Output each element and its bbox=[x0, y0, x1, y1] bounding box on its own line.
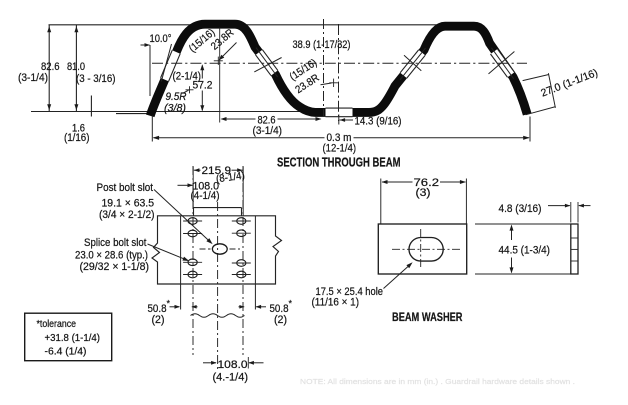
beam break gap 2 first crest right bbox=[256, 50, 278, 76]
washer front view outline bbox=[378, 224, 466, 274]
post edge line right bbox=[254, 216, 256, 310]
leader 9.5R with center mark bbox=[183, 90, 189, 93]
beam break gap 3 valley flat bbox=[326, 108, 353, 117]
10 degree reference vertical bbox=[149, 45, 151, 96]
svg-text:(2): (2) bbox=[274, 314, 287, 326]
svg-text:38.9 (1-17/32): 38.9 (1-17/32) bbox=[293, 39, 351, 51]
svg-text:+31.8 (1-1/4): +31.8 (1-1/4) bbox=[45, 333, 101, 344]
svg-text:27.0 (1-1/16): 27.0 (1-1/16) bbox=[539, 67, 599, 100]
svg-text:44.5 (1-3/4): 44.5 (1-3/4) bbox=[499, 245, 551, 257]
dimension 50.8 left bbox=[170, 306, 180, 308]
dimension 215.9 extension lines bbox=[192, 167, 194, 208]
splice bolt slot r1 right bbox=[237, 218, 246, 225]
svg-text:(1/16): (1/16) bbox=[64, 132, 90, 144]
svg-text:(2): (2) bbox=[152, 314, 165, 326]
svg-text:4.8 (3/16): 4.8 (3/16) bbox=[499, 203, 542, 215]
break cross marks gap 4 bbox=[400, 48, 426, 80]
dimension 14.3 leader bbox=[338, 115, 340, 125]
post bolt slot center oval bbox=[212, 244, 227, 254]
washer projection lines bbox=[475, 223, 571, 225]
leader 17.5 x 25.4 hole bbox=[384, 264, 412, 289]
washer side view bbox=[571, 224, 578, 274]
leader 23.8R valley with center mark bbox=[321, 83, 332, 85]
leader post bolt slot bbox=[154, 190, 211, 243]
dimension 215.9 line bbox=[194, 169, 201, 171]
svg-text:(3/8): (3/8) bbox=[164, 103, 186, 115]
svg-text:(29/32 × 1-1/8): (29/32 × 1-1/8) bbox=[80, 261, 150, 273]
svg-text:(3 - 3/16): (3 - 3/16) bbox=[76, 73, 116, 85]
washer dimension 76.2 bbox=[380, 179, 382, 225]
svg-text:14.3 (9/16): 14.3 (9/16) bbox=[355, 116, 402, 128]
svg-text:81.0: 81.0 bbox=[67, 61, 85, 73]
svg-text:*: * bbox=[289, 299, 293, 309]
splice bolt slot r4 right bbox=[237, 271, 246, 278]
plate vertical centerline dash-dot bbox=[217, 202, 219, 370]
dimension line 81.0 height bbox=[75, 25, 77, 112]
dimension 50.8 right bbox=[256, 306, 266, 308]
wire: 1.6 offset line bbox=[116, 113, 147, 115]
svg-text:*tolerance: *tolerance bbox=[37, 319, 77, 330]
svg-text:(3-1/4): (3-1/4) bbox=[18, 72, 48, 84]
10 degree slanted leg bbox=[161, 44, 171, 82]
break cross marks gap 5 bbox=[491, 48, 513, 79]
dimension 57.2 vertical bbox=[201, 66, 203, 79]
leader splice bolt slot bbox=[148, 244, 188, 260]
svg-text:-6.4 (1/4): -6.4 (1/4) bbox=[45, 347, 87, 358]
bolt column centerline left dash-dot bbox=[192, 166, 194, 355]
10 degree arrow bbox=[141, 44, 150, 46]
wire: top dimension line bbox=[49, 24, 442, 26]
svg-text:(11/16 × 1): (11/16 × 1) bbox=[312, 297, 360, 309]
W-beam rail profile (thick section) bbox=[150, 24, 527, 116]
svg-text:SECTION THROUGH BEAM: SECTION THROUGH BEAM bbox=[277, 156, 401, 170]
wire: baseline under beam bbox=[31, 111, 326, 113]
dimension 108.0 bottom bbox=[203, 362, 216, 364]
washer slotted hole bbox=[409, 238, 443, 262]
splice bolt slot r3 left bbox=[188, 259, 197, 266]
valley vertical centerline dash-dot bbox=[338, 24, 340, 121]
svg-text:Splice bolt slot: Splice bolt slot bbox=[84, 237, 147, 249]
38.9 dimension vertical line bbox=[323, 19, 325, 116]
splice bolt slot r3 right bbox=[237, 260, 246, 267]
beam break gap 1 left slope bbox=[161, 50, 181, 81]
svg-text:(3/4 × 2-1/2): (3/4 × 2-1/2) bbox=[99, 209, 155, 221]
splice bolt slot r2 left bbox=[188, 230, 197, 237]
bolt column centerline right dash-dot bbox=[242, 166, 244, 355]
svg-text:10.0°: 10.0° bbox=[150, 33, 172, 45]
svg-text:BEAM WASHER: BEAM WASHER bbox=[392, 310, 463, 324]
svg-text:19.1 × 63.5: 19.1 × 63.5 bbox=[102, 198, 155, 210]
dimension line 82.6 height bbox=[48, 25, 50, 112]
post break wavy line bbox=[191, 314, 245, 318]
horizontal centerline dash-dot bbox=[152, 62, 527, 64]
svg-text:(4-1/4): (4-1/4) bbox=[191, 190, 220, 202]
dimension 27.0 beam end bbox=[523, 75, 549, 81]
tolerance note box bbox=[25, 313, 112, 361]
dimension 82.6 crest-to-valley bbox=[219, 28, 221, 123]
dimension 44.5 vertical bbox=[511, 226, 513, 241]
svg-text:23.0 × 28.6 (typ.): 23.0 × 28.6 (typ.) bbox=[75, 250, 148, 262]
splice bolt slot r2 right bbox=[237, 230, 246, 237]
splice bolt slot r1 left bbox=[188, 218, 197, 225]
post edge line left bbox=[180, 216, 182, 310]
washer hole centerlines dash-dot bbox=[392, 248, 461, 250]
svg-text:(3): (3) bbox=[416, 187, 431, 199]
svg-text:NOTE: All dimensions are in mm: NOTE: All dimensions are in mm (in.) . G… bbox=[300, 377, 575, 386]
beam break gap 4 second crest left bbox=[400, 50, 425, 78]
svg-text:9.5R: 9.5R bbox=[166, 91, 187, 103]
splice plate overlap tab bbox=[194, 207, 242, 209]
leader for 1.6 dimension bbox=[90, 96, 92, 117]
splice bolt slot r4 left bbox=[188, 271, 197, 278]
beam break gap 5 second crest right bbox=[491, 49, 515, 77]
dimension 108.0 top line bbox=[178, 184, 193, 186]
dimension 4.8 thickness bbox=[570, 202, 572, 223]
svg-text:108.0: 108.0 bbox=[218, 359, 248, 371]
svg-text:*: * bbox=[167, 299, 171, 309]
svg-text:57.2: 57.2 bbox=[193, 80, 213, 92]
dimension 0.3 m overall bbox=[151, 116, 153, 142]
break cross marks gap 2 bbox=[256, 48, 278, 77]
svg-text:(12-1/4): (12-1/4) bbox=[323, 143, 357, 155]
svg-text:(4.-1/4): (4.-1/4) bbox=[213, 372, 249, 384]
splice plate outline with break edges bbox=[152, 216, 282, 284]
leader 23.8R first crest with center mark bbox=[220, 43, 237, 60]
svg-text:Post bolt slot: Post bolt slot bbox=[97, 182, 154, 194]
svg-text:(3-1/4): (3-1/4) bbox=[253, 125, 283, 137]
